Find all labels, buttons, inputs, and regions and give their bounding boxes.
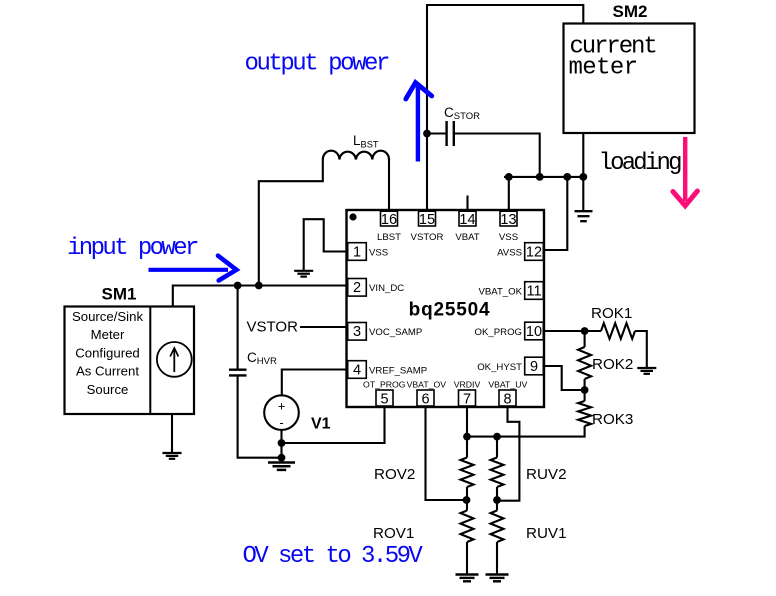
svg-text:7: 7 — [463, 392, 471, 408]
capacitor CHVR — [229, 370, 247, 376]
resistor ROK2 — [578, 347, 591, 379]
svg-text:VBAT: VBAT — [455, 232, 479, 243]
junction node pin10/ROK1/ROK2 — [581, 327, 589, 335]
op-amp U1 bq25504 IC with pins 1-16 — [347, 210, 545, 408]
wire pin 12 AVSS to rail — [545, 177, 567, 250]
junction node input/CHVR — [234, 282, 242, 290]
wire pin 13 VSS up to rail — [508, 177, 510, 212]
svg-text:LBST: LBST — [377, 232, 401, 243]
svg-text:+: + — [278, 399, 286, 414]
ground (pin 1 VSS) — [294, 270, 313, 272]
junction node input/LBST — [255, 282, 263, 290]
wire ROK2 bottom lead — [584, 379, 586, 390]
wire ROV1 top lead — [466, 500, 468, 511]
resistor RUV2 — [491, 458, 504, 488]
svg-text:3: 3 — [353, 324, 361, 340]
svg-text:1: 1 — [353, 244, 361, 260]
wire input power: SM1 top to pin 2 VIN_DC — [173, 286, 347, 308]
svg-text:VBAT_OK: VBAT_OK — [478, 286, 522, 297]
wire VSTOR label to pin 3 — [300, 326, 348, 328]
svg-text:13: 13 — [500, 212, 516, 228]
wire CHVR bottom to ground node — [238, 375, 282, 457]
svg-text:loading: loading — [599, 150, 682, 177]
svg-text:ROV1: ROV1 — [373, 525, 414, 542]
wire pin 10 OK_PROG to ROK node — [545, 330, 601, 332]
junction node CHVR/ground — [278, 454, 286, 462]
wire ROK3 bottom to VRDIV rail — [467, 426, 585, 437]
svg-text:SM2: SM2 — [613, 2, 648, 21]
svg-text:VBAT_UV: VBAT_UV — [488, 380, 527, 390]
svg-text:10: 10 — [526, 324, 542, 340]
wire pin 16 LBST up to inductor — [388, 160, 390, 213]
arrow input power (blue) — [149, 256, 237, 281]
wire pin 9 OK_HYST to ROK2/ROK3 node — [545, 366, 585, 390]
svg-text:-: - — [279, 415, 283, 430]
junction node RUV2/RUV1/pin8 — [493, 496, 501, 504]
junction node rail/SM2-ground — [579, 173, 587, 181]
wire RUV1 to ground — [496, 542, 498, 575]
svg-text:bq25504: bq25504 — [409, 300, 491, 321]
meter SM1 box — [65, 307, 195, 415]
svg-text:6: 6 — [421, 392, 429, 408]
junction node rail/AVSS — [563, 173, 571, 181]
ground (V1) — [268, 461, 295, 464]
wire ROV2 top lead — [466, 437, 468, 458]
arrow output power (blue) — [406, 83, 432, 162]
wire pin 5 OT_PROG to V1 node — [282, 407, 385, 443]
ground (RUV1) — [486, 573, 509, 575]
junction node ROV2/ROV1/pin6 — [463, 496, 471, 504]
resistor ROK1 — [601, 323, 635, 339]
ground (ROV1) — [456, 573, 479, 575]
svg-text:OK_PROG: OK_PROG — [475, 327, 522, 338]
current source symbol in SM1 — [157, 342, 192, 377]
svg-text:input power: input power — [67, 235, 198, 262]
svg-text:2: 2 — [353, 280, 361, 296]
svg-text:ROK3: ROK3 — [592, 411, 633, 428]
inductor LBST — [323, 151, 389, 160]
svg-text:5: 5 — [380, 392, 388, 408]
wire VSTOR node to CSTOR left plate — [427, 132, 447, 134]
svg-text:OK_HYST: OK_HYST — [477, 362, 522, 373]
resistor ROV2 — [461, 458, 474, 488]
ground (SM1) — [163, 452, 182, 454]
wire input node down to CHVR — [237, 286, 239, 370]
svg-text:AVSS: AVSS — [497, 247, 522, 258]
wire VSTOR rail: pin 15 up, across top, down to SM2 — [427, 5, 583, 212]
wire RUV1 top lead — [496, 500, 498, 511]
arrow loading (pink) — [673, 137, 698, 206]
svg-text:ROK2: ROK2 — [592, 356, 633, 373]
wire pin 14 VBAT stub — [466, 196, 468, 212]
wire ROK1 to ground — [635, 331, 647, 369]
resistor ROK3 — [578, 401, 591, 426]
svg-text:VSS: VSS — [369, 247, 388, 258]
wire RUV2 bottom lead — [496, 487, 498, 500]
wire pin 8 VBAT_UV to RUV node — [497, 407, 519, 501]
voltage source V1 — [264, 395, 299, 430]
svg-text:9: 9 — [530, 359, 538, 375]
wire SM2 bottom to storage rail — [582, 133, 584, 212]
wire pin 1 VSS to ground — [304, 219, 347, 271]
svg-text:16: 16 — [381, 212, 397, 228]
svg-text:11: 11 — [526, 283, 541, 299]
wire ROK2 top lead — [584, 331, 586, 347]
svg-text:VSTOR: VSTOR — [411, 232, 444, 243]
svg-text:OV set to 3.59V: OV set to 3.59V — [243, 543, 424, 570]
wire inductor left lead to input node — [259, 160, 323, 286]
meter SM2 box — [564, 24, 695, 134]
svg-text:ROV2: ROV2 — [374, 466, 415, 483]
svg-text:VIN_DC: VIN_DC — [369, 283, 404, 294]
wire pin 6 VBAT_OV to ROV node — [426, 407, 468, 500]
svg-text:14: 14 — [459, 212, 475, 228]
junction node VSTOR/CSTOR — [423, 130, 431, 138]
wire ROV2 bottom lead — [466, 487, 468, 500]
junction node V1/pin5 — [278, 439, 286, 447]
svg-text:OT_PROG: OT_PROG — [363, 380, 406, 390]
wire storage rail horizontal — [504, 176, 585, 178]
wire SM1 bottom to ground — [171, 414, 173, 453]
svg-text:SM1: SM1 — [102, 285, 137, 304]
svg-text:RUV1: RUV1 — [526, 525, 567, 542]
svg-text:4: 4 — [353, 362, 361, 378]
junction node ROK2/ROK3/pin9 — [581, 386, 589, 394]
svg-text:15: 15 — [419, 212, 435, 228]
svg-text:ROK1: ROK1 — [591, 305, 632, 322]
junction node rail/CSTOR — [536, 173, 544, 181]
resistor ROV1 — [461, 511, 474, 543]
capacitor CSTOR — [447, 121, 454, 146]
junction node VRDIV/RUV2 — [493, 433, 501, 441]
wire pin 4 VREF_SAMP to V1 — [282, 370, 347, 395]
ground (storage rail) — [575, 210, 593, 212]
wire CSTOR right plate to rail — [454, 134, 540, 177]
svg-text:12: 12 — [526, 244, 542, 260]
svg-text:VSS: VSS — [499, 232, 518, 243]
wire pin 7 VRDIV down — [466, 407, 468, 437]
junction node rail/pin13 — [505, 173, 513, 181]
svg-text:VREF_SAMP: VREF_SAMP — [369, 365, 427, 376]
svg-text:VSTOR: VSTOR — [247, 319, 299, 336]
svg-text:V1: V1 — [311, 416, 331, 433]
svg-text:8: 8 — [503, 392, 511, 408]
svg-text:VOC_SAMP: VOC_SAMP — [369, 327, 422, 338]
wire ROV1 to ground — [466, 542, 468, 575]
ground (ROK1) — [637, 367, 656, 369]
resistor RUV1 — [491, 511, 504, 543]
svg-text:VBAT_OV: VBAT_OV — [407, 380, 447, 390]
junction node pin7/VRDIV — [463, 433, 471, 441]
wire RUV2 top lead — [496, 437, 498, 458]
wire V1 bottom to ground — [280, 430, 282, 459]
svg-text:output power: output power — [245, 51, 389, 78]
wire ROK3 top lead — [584, 390, 586, 401]
svg-text:RUV2: RUV2 — [526, 466, 567, 483]
svg-text:VRDIV: VRDIV — [454, 380, 481, 390]
